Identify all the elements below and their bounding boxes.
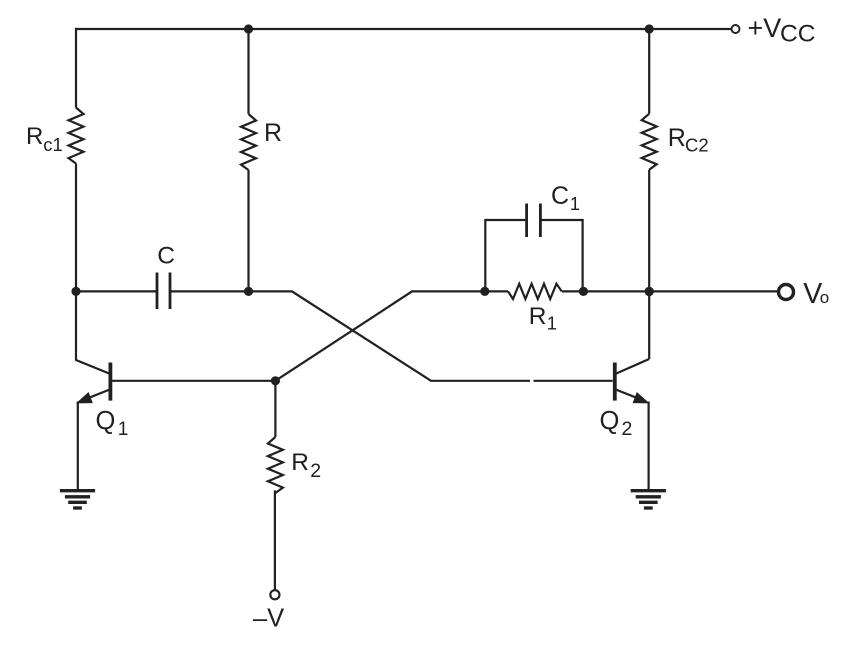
svg-text:1: 1 — [547, 313, 557, 334]
Q1 emitter arrowhead — [77, 393, 92, 403]
terminal Vo bold circle — [779, 285, 794, 300]
wire Q2 base segment after small gap — [534, 380, 613, 382]
svg-text:C: C — [157, 242, 175, 269]
svg-text:C: C — [551, 182, 569, 210]
capacitor C1 loop left side — [485, 220, 525, 291]
svg-text:CC: CC — [780, 21, 815, 48]
node dot R1 right — [579, 287, 588, 296]
svg-text:c1: c1 — [43, 134, 63, 155]
wire R2 bottom to -V terminal — [274, 490, 276, 590]
Q2 emitter line — [616, 390, 646, 402]
wire R1 right node to Vo — [583, 290, 777, 292]
label Q2 — [600, 407, 633, 440]
transistor Q2 — [615, 359, 649, 489]
wire R1 left lead — [485, 290, 508, 292]
wire left branch upper (VCC to Rc1) — [75, 28, 77, 108]
wire node C diagonal up to R1 left node — [275, 291, 484, 380]
wire node D down to Q2 collector — [648, 291, 650, 359]
node B dot — [244, 287, 253, 296]
resistor R — [241, 114, 256, 170]
wire capacitor C to node B — [171, 290, 249, 292]
Q2 collector wire from node D — [616, 359, 649, 374]
transistor Q1 — [76, 291, 110, 489]
wire node B to Q2 base (with diagonal cross) — [249, 291, 531, 380]
svg-text:C2: C2 — [685, 135, 709, 156]
Q2 emitter arrowhead — [633, 393, 648, 403]
wire top rail VCC — [76, 28, 732, 30]
wire R branch upper (VCC to R) — [247, 28, 249, 114]
resistor R1 — [508, 284, 562, 299]
svg-text:1: 1 — [570, 193, 580, 214]
svg-text:R: R — [668, 124, 686, 152]
resistor R2 — [268, 437, 283, 493]
node dot D (Q2 collector node) — [645, 287, 654, 296]
wire RC2 branch upper (VCC to RC2) — [648, 28, 650, 114]
svg-text:–V: –V — [253, 604, 284, 632]
Q2 base bar — [613, 363, 617, 401]
svg-text:R: R — [529, 303, 547, 330]
node dot top of R — [244, 24, 253, 33]
svg-text:1: 1 — [118, 419, 129, 440]
capacitor C — [157, 273, 170, 310]
label RC2 — [668, 124, 709, 156]
svg-text:+V: +V — [748, 13, 782, 43]
label Rc1 — [26, 123, 63, 155]
Q1 collector wire from node A — [76, 291, 110, 373]
node A dot (Q1 collector node) — [71, 287, 80, 296]
terminal +VCC open circle — [732, 25, 740, 33]
svg-text:2: 2 — [622, 418, 633, 440]
svg-text:Q: Q — [96, 407, 116, 435]
wire node C down to R2 — [274, 381, 276, 437]
Q1 base bar — [109, 363, 113, 401]
svg-text:2: 2 — [310, 460, 321, 482]
Q2 emitter wire down — [647, 402, 649, 490]
Q1 emitter wire down — [77, 402, 79, 490]
svg-text:R: R — [26, 123, 43, 150]
wire node A to capacitor C left plate — [76, 290, 156, 292]
capacitor C1 loop right side — [542, 220, 583, 291]
ground under Q2 — [631, 491, 666, 508]
resistor Rc1 — [69, 108, 84, 164]
terminal -V open circle — [270, 590, 279, 599]
svg-text:Q: Q — [600, 407, 620, 435]
label R1 — [529, 303, 557, 334]
wire R1 right lead — [562, 290, 583, 292]
ground under Q1 — [60, 491, 95, 508]
node dot R1 left — [480, 287, 489, 296]
node C dot (Q1 base / R2 top) — [271, 376, 280, 385]
svg-text:o: o — [820, 288, 829, 307]
label R2 — [291, 449, 321, 482]
node dot top of RC2 — [645, 24, 654, 33]
label Q1 — [96, 407, 129, 440]
label +VCC — [748, 13, 816, 47]
wire Q1 base to node C — [112, 380, 276, 382]
resistor RC2 — [642, 114, 657, 170]
wire R bottom to node B — [247, 170, 249, 291]
label C1 — [551, 182, 580, 214]
svg-text:R: R — [291, 449, 309, 476]
Q1 emitter line — [80, 390, 110, 402]
wire RC2 bottom to node D — [648, 170, 650, 292]
wire Rc1 bottom to node A — [75, 164, 77, 292]
label Vo — [803, 278, 829, 310]
svg-text:R: R — [264, 119, 282, 147]
capacitor C1 plates — [527, 204, 541, 238]
